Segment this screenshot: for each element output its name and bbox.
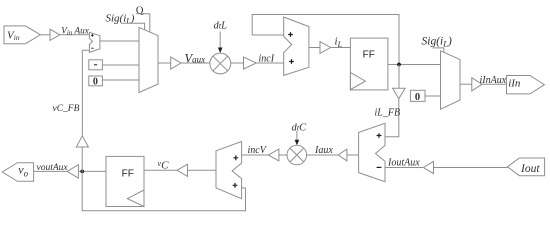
buffer VinAux xyxy=(50,29,60,40)
buffer vC xyxy=(177,164,188,176)
buffer IoutAux xyxy=(423,161,433,173)
wire A2 output to buffer vC xyxy=(188,169,217,171)
wire bottom feedback vout to A2 xyxy=(82,171,245,210)
svg-text:Vin: Vin xyxy=(7,30,20,43)
svg-text:iIn: iIn xyxy=(508,77,521,89)
wire buffer to iIn port xyxy=(482,83,507,85)
svg-text:0: 0 xyxy=(415,92,420,103)
svg-text:iL: iL xyxy=(335,35,343,49)
wire "0" box to mux xyxy=(102,79,139,81)
output port iIn xyxy=(507,76,545,94)
svg-text:Vaux: Vaux xyxy=(185,51,206,65)
wire buffer to subtractor S1 xyxy=(60,34,90,36)
node junction vout xyxy=(80,170,84,174)
wire buffer to multiplier M2 xyxy=(307,154,339,156)
wire S1 output to mux M1 xyxy=(100,40,139,42)
wire FF2 output to voutAux buffer xyxy=(78,170,106,172)
svg-text:Q: Q xyxy=(136,5,144,16)
S1 plus mark xyxy=(91,34,94,37)
adder A2 xyxy=(216,142,242,199)
wire buffer to FF2 xyxy=(144,169,177,171)
wire select Sig(iL) to mux MX2 xyxy=(433,48,444,52)
S1 minus mark xyxy=(91,47,93,49)
svg-text:Vin Aux: Vin Aux xyxy=(61,25,89,37)
flip-flop FF2 xyxy=(106,156,144,206)
wire mux MX2 output to buffer xyxy=(460,83,472,85)
svg-text:Iaux: Iaux xyxy=(314,145,333,156)
wire M1 to buffer incI xyxy=(231,62,244,64)
wire triangle down to A3 top input xyxy=(385,99,399,137)
wire 0 box to mux MX2 xyxy=(425,95,441,97)
wire Vin port to buffer xyxy=(40,34,50,36)
multiplier M2 xyxy=(287,145,307,165)
svg-text:FF: FF xyxy=(363,49,375,60)
A1 plus mark bottom xyxy=(289,59,294,64)
svg-text:iInAux: iInAux xyxy=(480,75,507,86)
constant box "0" xyxy=(89,76,103,86)
A2 plus mark top xyxy=(233,155,238,160)
buffer Vaux xyxy=(171,57,181,69)
adder A1 xyxy=(284,17,309,75)
svg-text:0: 0 xyxy=(93,76,98,87)
constant box "-" xyxy=(89,60,103,70)
wire buffer to A2 top input xyxy=(242,154,269,156)
buffer down triangle iL_FB xyxy=(393,88,406,99)
svg-text:FF: FF xyxy=(122,169,134,180)
svg-text:Iout: Iout xyxy=(520,163,540,175)
wire buffer to A3 bottom input xyxy=(385,167,423,169)
wire Q to mux MX1 xyxy=(136,14,150,32)
wire mux MX1 output to buffer xyxy=(158,62,171,64)
A1 plus mark top xyxy=(288,32,293,37)
svg-text:Sig(iL): Sig(iL) xyxy=(422,35,452,48)
wire dtL arrow into M1 xyxy=(219,32,221,49)
mux MX1 xyxy=(139,27,158,92)
svg-text:incI: incI xyxy=(259,54,275,65)
svg-text:vC: vC xyxy=(158,159,170,172)
arrowhead dtC xyxy=(295,140,300,145)
svg-text:vo: vo xyxy=(18,162,28,178)
FF1 clock triangle xyxy=(350,73,365,90)
subtractor S1 xyxy=(89,32,100,52)
input port Iout xyxy=(508,158,545,176)
svg-text:voutAux: voutAux xyxy=(37,163,69,173)
A2 plus mark bottom xyxy=(233,183,238,188)
flip-flop FF1 xyxy=(350,38,388,90)
buffer iInAux xyxy=(472,78,482,91)
svg-text:iL_FB: iL_FB xyxy=(375,107,401,118)
wire select Sig(iL) to mux MX1 xyxy=(121,23,145,30)
node junction iL_FB xyxy=(397,63,401,67)
output port vo xyxy=(2,163,33,182)
buffer iL xyxy=(320,42,331,54)
wire A1 output to buffer iL xyxy=(309,47,320,49)
A3 minus mark xyxy=(377,166,382,168)
wire A3 output to buffer Iaux xyxy=(347,154,359,156)
buffer Iaux xyxy=(338,149,347,161)
wire buffer to vo port xyxy=(34,170,68,172)
mux MX2 xyxy=(441,51,461,109)
svg-text:vC_FB: vC_FB xyxy=(53,104,80,114)
A3 plus mark xyxy=(377,133,382,138)
wire junction down to triangle xyxy=(398,65,400,89)
wire buffer to adder A1 xyxy=(256,62,284,64)
arrowhead dtL xyxy=(218,48,223,54)
buffer incI xyxy=(244,57,257,69)
wire buffer to FF1 xyxy=(331,47,351,49)
label "-" in box xyxy=(94,64,97,66)
constant box "0" right xyxy=(410,90,425,101)
wire Iout to buffer xyxy=(434,167,508,169)
buffer voutAux xyxy=(67,165,78,178)
FF2 clock triangle xyxy=(127,190,144,207)
wire junction up to triangle vC_FB xyxy=(81,147,83,171)
svg-text:incV: incV xyxy=(248,145,268,156)
wire M2 to buffer incV xyxy=(279,154,287,156)
wire dtC arrow into M2 xyxy=(296,131,298,141)
svg-text:dtC: dtC xyxy=(292,122,308,133)
wire triangle up to S1 bottom input xyxy=(82,50,89,136)
svg-text:IoutAux: IoutAux xyxy=(387,157,420,168)
multiplier M1 xyxy=(210,53,231,74)
buffer up triangle vC_FB xyxy=(76,136,88,147)
svg-text:dtL: dtL xyxy=(214,21,228,32)
wire buffer to multiplier M1 xyxy=(181,62,210,64)
buffer incV xyxy=(268,149,279,161)
wire FF1 output to mux MX2 xyxy=(388,64,441,66)
subtractor A3 xyxy=(359,123,385,181)
wire "-" box to mux xyxy=(102,64,139,66)
wire feedback iL to A1 top input xyxy=(252,15,399,65)
input port Vin xyxy=(4,26,40,44)
